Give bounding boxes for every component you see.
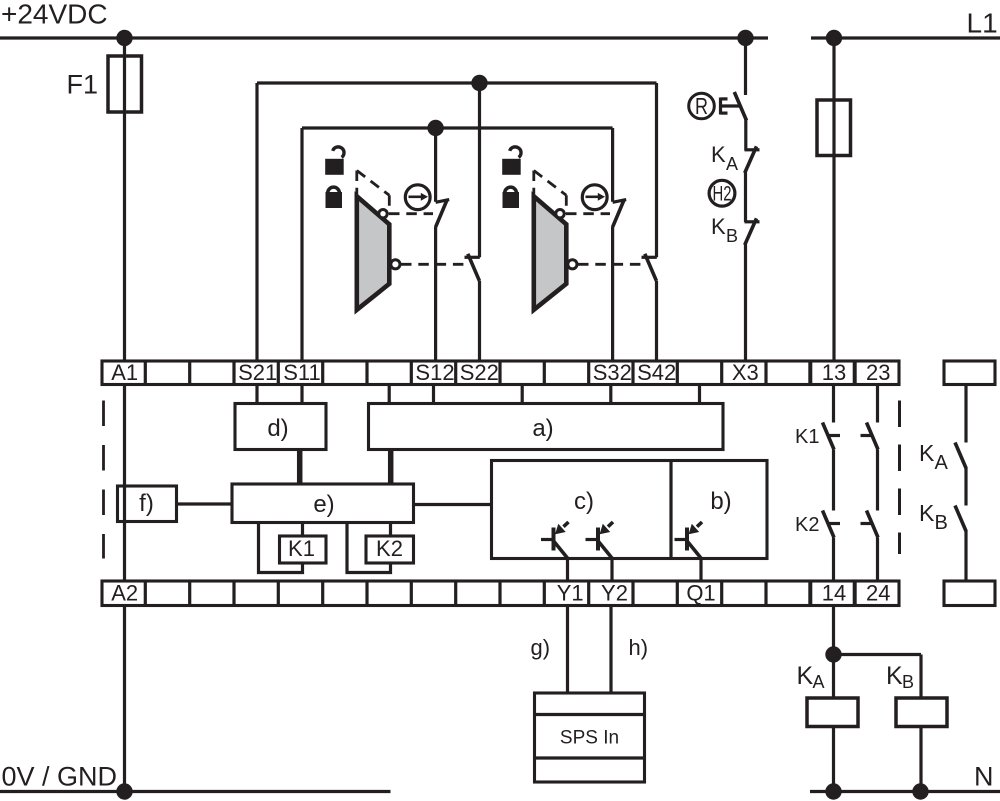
svg-text:c): c) [574,488,594,515]
svg-text:e): e) [313,491,334,518]
svg-text:23: 23 [866,360,890,385]
svg-text:B: B [935,512,948,534]
svg-text:0V / GND: 0V / GND [2,761,118,791]
svg-text:Q1: Q1 [686,581,715,606]
svg-text:F1: F1 [67,70,99,100]
svg-text:K1: K1 [795,426,819,448]
svg-text:14: 14 [822,581,846,606]
svg-text:S32: S32 [593,360,632,385]
svg-text:K2: K2 [376,536,403,561]
svg-text:A: A [726,154,738,174]
svg-text:K1: K1 [288,536,315,561]
svg-text:h): h) [629,635,649,660]
svg-text:K2: K2 [795,514,819,536]
svg-text:S21: S21 [238,360,277,385]
svg-text:S22: S22 [460,360,499,385]
svg-text:K: K [797,662,814,690]
svg-text:X3: X3 [732,360,759,385]
svg-text:B: B [902,672,914,692]
svg-text:A: A [935,452,949,474]
svg-text:K: K [711,214,726,239]
svg-text:H2: H2 [713,183,732,206]
svg-text:a): a) [532,415,553,442]
svg-text:A: A [813,672,825,692]
svg-text:K: K [919,440,935,466]
svg-text:R: R [695,93,708,119]
svg-text:S12: S12 [415,360,454,385]
svg-text:N: N [974,762,994,792]
svg-text:g): g) [531,635,551,660]
svg-text:K: K [919,500,935,526]
svg-text:S11: S11 [283,360,321,385]
svg-text:A2: A2 [111,581,138,606]
svg-text:L1: L1 [967,8,998,39]
svg-text:d): d) [267,415,288,442]
svg-text:Y2: Y2 [601,581,628,606]
svg-text:A1: A1 [111,360,138,385]
svg-text:K: K [886,662,903,690]
svg-text:13: 13 [822,360,846,385]
svg-text:S42: S42 [637,360,676,385]
svg-text:24: 24 [866,581,890,606]
svg-text:B: B [726,226,738,246]
svg-text:SPS In: SPS In [560,728,619,749]
svg-text:K: K [711,142,726,167]
svg-text:b): b) [710,488,731,515]
svg-text:+24VDC: +24VDC [1,0,108,30]
svg-text:Y1: Y1 [557,581,584,606]
svg-text:f): f) [139,490,154,517]
